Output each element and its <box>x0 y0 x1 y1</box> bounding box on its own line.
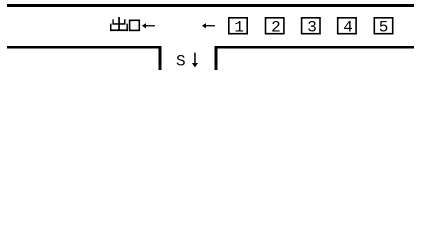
svg-text:5: 5 <box>379 19 389 37</box>
svg-text:2: 2 <box>271 19 281 37</box>
svg-text:4: 4 <box>343 19 353 37</box>
svg-text:3: 3 <box>307 19 317 37</box>
svg-text:1: 1 <box>234 19 244 37</box>
svg-text:S: S <box>176 52 186 70</box>
